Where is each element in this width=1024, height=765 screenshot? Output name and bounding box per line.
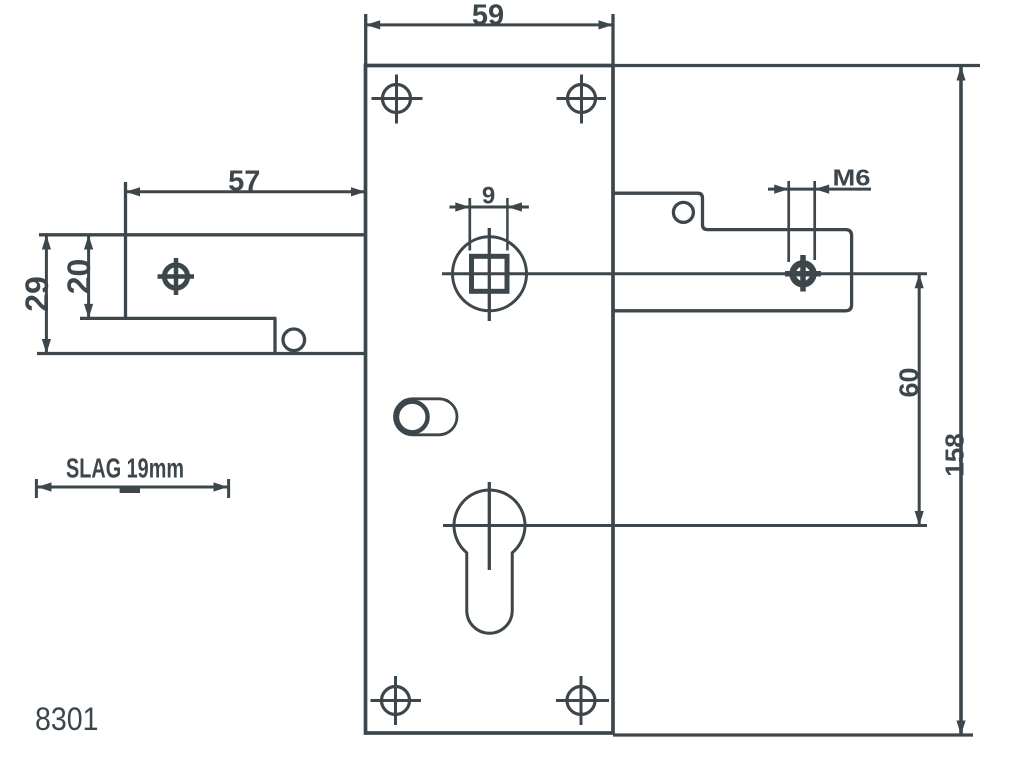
- svg-text:9: 9: [482, 183, 495, 210]
- svg-text:158: 158: [940, 433, 970, 476]
- svg-text:59: 59: [472, 0, 504, 32]
- dim 9 arrow right: [507, 202, 522, 211]
- SLAG end bar left: [35, 479, 38, 498]
- cylinder centerline horizontal: [443, 524, 927, 527]
- right view small circle: [673, 202, 693, 222]
- follower crosshair vertical: [488, 228, 491, 321]
- dim 60 arrow bottom: [915, 511, 924, 526]
- dim 9 extension left: [468, 198, 471, 251]
- M6 screw point: [785, 255, 821, 292]
- dim 57 line: [126, 190, 366, 193]
- left view step line: [80, 317, 276, 320]
- dim 158 line: [959, 66, 963, 735]
- dim 29 arrow top: [42, 235, 51, 250]
- dim 59 arrow right: [599, 20, 614, 29]
- dim 20 line: [87, 235, 90, 318]
- svg-text:29: 29: [19, 276, 55, 312]
- screw hole top-left: [372, 75, 423, 124]
- svg-text:60: 60: [894, 367, 924, 397]
- dim 60 arrow top: [915, 274, 924, 289]
- svg-text:SLAG 19mm: SLAG 19mm: [66, 453, 184, 484]
- oval slot: [395, 399, 458, 435]
- left view bottom edge: [37, 352, 365, 355]
- SLAG arrow left: [37, 482, 52, 491]
- SLAG end bar right: [227, 479, 230, 498]
- dim 20 arrow bottom: [84, 304, 93, 319]
- dim 158 arrow bottom: [956, 721, 965, 736]
- cylinder crosshair vertical: [488, 482, 491, 570]
- left view body left edge / dim 57 extension: [124, 182, 127, 318]
- M6 extension line right: [813, 181, 816, 260]
- dim 57 arrow right: [351, 187, 366, 196]
- dim 59 extension line right: [611, 14, 614, 64]
- M6 arrow right: [815, 185, 830, 194]
- dim 59 arrow left: [366, 20, 381, 29]
- right side view outline: [613, 193, 852, 311]
- left view top edge: [39, 233, 365, 236]
- M6 extension line left: [787, 181, 790, 262]
- faceplate front view outline: [366, 66, 614, 734]
- left view step vertical: [273, 318, 276, 353]
- dim 29 arrow bottom: [42, 339, 51, 354]
- dim 57 arrow left: [126, 187, 141, 196]
- dim 9 line: [449, 206, 529, 209]
- dim 9 extension right: [506, 198, 509, 251]
- bottom extension line to 158 dim: [613, 733, 973, 736]
- dim 29 line: [45, 235, 48, 354]
- dim 60 line: [918, 274, 921, 526]
- spindle square hole: [472, 256, 508, 291]
- top extension line to 158 dim: [613, 64, 980, 67]
- left view small circle: [283, 329, 305, 351]
- M6 arrow left: [774, 185, 789, 194]
- svg-text:20: 20: [61, 259, 97, 295]
- svg-text:8301: 8301: [35, 701, 99, 737]
- screw hole bottom-left: [371, 676, 422, 725]
- SLAG arrow right: [214, 482, 229, 491]
- dim 9 arrow left: [455, 202, 470, 211]
- dim 20 arrow top: [84, 235, 93, 250]
- M6 dim line: [768, 188, 871, 191]
- dim 59 extension line left: [364, 14, 367, 64]
- left view screw crosshair: [158, 258, 195, 295]
- follower centerline horizontal: [442, 272, 927, 275]
- svg-text:M6: M6: [833, 165, 871, 191]
- dim 59 line: [366, 23, 613, 26]
- screw hole bottom-right: [556, 676, 609, 725]
- dim 158 arrow top: [956, 66, 965, 81]
- spindle follower circle: [453, 237, 527, 311]
- screw hole top-right: [557, 75, 607, 124]
- SLAG center mark: [120, 488, 140, 493]
- euro cylinder hole profile: [454, 490, 525, 633]
- SLAG dim line: [36, 486, 228, 489]
- oval slot bold circle: [397, 402, 428, 433]
- svg-text:57: 57: [228, 166, 260, 198]
